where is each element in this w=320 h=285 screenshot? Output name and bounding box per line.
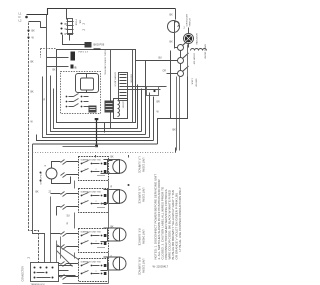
wire cluster to top bus: [66, 9, 68, 20]
wire fuse to connector: [63, 35, 85, 45]
plug pair row 4: [61, 262, 67, 280]
relay lock box inner: [147, 87, 159, 96]
svg-text:BK: BK: [173, 129, 177, 132]
svg-text:SURFACE UNIT SW: SURFACE UNIT SW: [81, 231, 102, 234]
svg-text:1: 1: [85, 169, 86, 171]
svg-text:SURFACE UNIT SW: SURFACE UNIT SW: [81, 159, 102, 162]
svg-text:DOOR SW: DOOR SW: [193, 54, 195, 66]
svg-text:CONNECTOR: CONNECTOR: [22, 266, 25, 282]
wire lamp feed: [188, 28, 190, 48]
svg-text:R.R. SURFACE: R.R. SURFACE: [138, 258, 141, 276]
node splice on left bus: [27, 36, 29, 38]
component inner tick: [86, 74, 88, 93]
switch door switch chain node 1: [178, 40, 189, 51]
svg-text:BK: BK: [111, 157, 115, 159]
wire light to node1: [175, 47, 178, 49]
svg-text:L.R. SURFACE: L.R. SURFACE: [138, 187, 141, 204]
svg-text:15A: 15A: [79, 20, 82, 24]
svg-text:BU: BU: [159, 58, 163, 60]
wire short horizontal y146: [63, 146, 97, 148]
svg-text:UNIT 1200W: UNIT 1200W: [142, 158, 145, 173]
svg-text:ELEC. OVEN CONTROL: ELEC. OVEN CONTROL: [104, 51, 106, 76]
wire chain right rail: [187, 45, 189, 77]
switch infinite switch box 1: [79, 157, 109, 181]
wire dark drop from control box: [96, 119, 98, 147]
terminal block box: [31, 263, 59, 282]
svg-text:1: 1: [85, 271, 86, 273]
relay contact row 1: [66, 94, 89, 98]
lamp indicator with X: [184, 34, 194, 44]
svg-text:SU: SU: [67, 216, 71, 218]
svg-text:BROIL 3400W: BROIL 3400W: [204, 45, 206, 60]
svg-text:BK: BK: [36, 192, 40, 194]
svg-text:N: N: [19, 15, 21, 19]
svg-text:FUSE: FUSE: [75, 20, 77, 26]
fuse label: [75, 20, 86, 32]
lamp oven light: [168, 21, 180, 33]
relay contact row 2: [66, 99, 89, 103]
notes text block rotated columns: [154, 174, 183, 260]
plug pair row 1: [61, 160, 67, 178]
connector P1 pins: [61, 23, 69, 37]
heater broil element coil: [191, 49, 207, 51]
dashed enclosure lower: [61, 72, 101, 114]
relay contact row 3: [66, 104, 89, 108]
svg-text:BKD P09: BKD P09: [94, 43, 105, 47]
power terminal junction: [25, 16, 28, 19]
wire box to door chain: [136, 60, 146, 62]
label element 4: [138, 258, 145, 276]
svg-text:DOOR LATCH: DOOR LATCH: [114, 73, 117, 88]
wire to door switch: [146, 60, 178, 62]
label contacts row 1: [85, 169, 97, 171]
wire terminal out 1: [59, 265, 73, 267]
svg-text:B: B: [75, 66, 77, 70]
node drop bottom: [95, 145, 98, 147]
wire below oven light: [174, 33, 176, 49]
heater surface element 2: [108, 190, 127, 204]
label element 3: [138, 229, 145, 246]
wire lock pair: [177, 77, 180, 151]
wire to lock switch: [167, 73, 178, 75]
dashed power section corner: [41, 49, 57, 58]
svg-text:SURFACE UNIT SW: SURFACE UNIT SW: [81, 261, 102, 264]
motor door latch coil: [119, 73, 128, 101]
svg-text:UNIT 1200W: UNIT 1200W: [142, 259, 145, 274]
svg-text:BK: BK: [170, 14, 174, 17]
wire mid lower bus: [50, 197, 52, 263]
connector TB blob: [71, 52, 76, 61]
terminal block pins: [34, 267, 54, 279]
lamp pilot row 1: [46, 168, 57, 179]
wire bracket upper right 2: [119, 89, 161, 91]
wire row3 left links: [51, 234, 79, 247]
wire nested horizontals below box: [43, 15, 150, 138]
node tick on box top: [94, 48, 101, 50]
wire box entry 1: [47, 57, 69, 59]
svg-text:SWITCH: SWITCH: [190, 18, 192, 27]
label element 2: [138, 187, 145, 204]
svg-text:SWITCH: SWITCH: [195, 79, 197, 88]
wire label speckles: [31, 58, 167, 259]
label latch vertical: [114, 73, 132, 88]
switch contacts 3: [81, 233, 105, 248]
svg-text:MOTOR: MOTOR: [130, 75, 132, 84]
wire L1 top bus: [27, 9, 176, 15]
plug pair row 2: [61, 192, 67, 210]
terminal block inner dashes: [37, 273, 51, 278]
wire row1 left links: [52, 162, 79, 184]
svg-text:2: 2: [96, 169, 97, 171]
motor clock coil: [114, 99, 128, 119]
svg-text:2: 2: [96, 201, 97, 203]
svg-text:LOCK: LOCK: [191, 79, 193, 85]
wire N bus: [29, 22, 47, 28]
wire corner at right: [158, 77, 188, 145]
wire row4 bottom: [63, 263, 109, 284]
svg-text:L.F. SURFACE: L.F. SURFACE: [138, 157, 141, 174]
wire chain link: [180, 51, 182, 71]
svg-text:1: 1: [85, 201, 86, 203]
wire row4 left links: [59, 264, 79, 277]
connector BKD plug: [85, 42, 92, 48]
relay block A: [89, 106, 97, 113]
node tick below dotted b: [128, 155, 130, 158]
wire vertical pair row34: [57, 237, 61, 263]
wire terminal out 2: [59, 270, 69, 272]
svg-text:BK: BK: [53, 70, 57, 72]
label contacts row 4: [85, 271, 97, 273]
node lock relay dot: [153, 90, 155, 92]
switch door switch chain node 2: [178, 53, 189, 64]
svg-text:BK: BK: [31, 92, 35, 94]
wire element2 stub: [101, 190, 108, 204]
node speck b: [40, 180, 42, 182]
svg-text:INDICATOR: INDICATOR: [196, 33, 199, 45]
control box electronic oven control: [57, 50, 136, 123]
switch contacts 2: [81, 193, 105, 208]
heater surface element 4: [108, 257, 127, 270]
switch oven light switch label: [187, 13, 192, 26]
svg-text:R.F. SURFACE: R.F. SURFACE: [138, 229, 141, 246]
node speck a: [40, 172, 42, 174]
wire element3 stub: [101, 228, 108, 242]
wire row2 left links: [51, 194, 79, 216]
svg-text:BK: BK: [31, 62, 35, 64]
svg-text:P09 1 2 3: P09 1 2 3: [79, 52, 89, 54]
wire element4 stub: [101, 257, 108, 271]
switch infinite switch box 2: [79, 189, 109, 213]
node tick below dotted a: [95, 155, 97, 158]
wire diagonal interconnect b: [57, 251, 73, 267]
switch infinite switch box 3: [79, 229, 109, 253]
wire right drop to oven light: [175, 9, 177, 20]
relay block B: [105, 101, 114, 113]
svg-text:BK: BK: [32, 30, 36, 33]
wire element1 stub: [101, 160, 108, 174]
svg-text:2: 2: [96, 271, 97, 273]
label contacts row 3: [85, 241, 97, 243]
wire row3 chain: [75, 253, 109, 259]
fuse F1: [67, 19, 74, 35]
wire long dark horizontal: [33, 143, 158, 145]
label element 1: [138, 157, 145, 174]
switch contacts 4: [81, 263, 103, 275]
component nested rounded rect outer: [76, 74, 99, 93]
switch infinite switch box 4: [79, 259, 109, 282]
wire dotted separator: [33, 152, 176, 154]
svg-text:UNIT 1200W: UNIT 1200W: [142, 188, 145, 203]
component nested rounded rect inner: [81, 78, 94, 90]
node drop top: [95, 118, 99, 120]
node L1 power terminal labels: [19, 12, 22, 23]
wire box entry 2: [47, 66, 69, 68]
switch contacts 1: [81, 161, 105, 176]
wire terminal out 3: [59, 275, 76, 277]
wire left vertical bus: [29, 23, 39, 263]
svg-text:UNIT 2400W: UNIT 2400W: [142, 230, 145, 245]
svg-text:BR: BR: [157, 102, 161, 104]
control box inner walls: [111, 50, 133, 123]
switch door switch chain node 3: [178, 66, 189, 77]
wire row1 to element: [109, 161, 113, 173]
connector TB mark 2: [71, 65, 74, 69]
svg-text:1: 1: [85, 241, 86, 243]
wire row2 chain: [75, 181, 109, 229]
wire tick at separator end: [175, 148, 177, 153]
svg-text:R: R: [65, 33, 67, 36]
heater surface element 3: [108, 228, 127, 241]
wire diagonal interconnect a: [57, 245, 79, 260]
svg-text:OR: OR: [163, 71, 167, 73]
svg-text:SURFACE UNIT SW: SURFACE UNIT SW: [81, 191, 102, 194]
wire left lower bus: [33, 144, 45, 263]
label door switch: [191, 54, 197, 88]
svg-text:BK: BK: [170, 41, 174, 44]
wire bracket upper right 1: [123, 86, 167, 88]
label contacts row 2: [85, 201, 97, 203]
label control vertical: [104, 51, 106, 76]
svg-text:BK: BK: [111, 227, 115, 229]
node dot under element1: [128, 184, 130, 186]
heater surface element 1: [108, 160, 127, 174]
svg-text:CLOCK: CLOCK: [122, 101, 124, 109]
svg-text:2: 2: [96, 241, 97, 243]
wire right verticals: [170, 51, 172, 119]
wire bundle right verticals: [37, 61, 154, 141]
svg-text:OVEN LIGHT: OVEN LIGHT: [187, 13, 189, 26]
svg-text:W- 22003417: W- 22003417: [153, 265, 169, 269]
wire short drops from box bottom: [105, 123, 111, 133]
svg-text:LT BLUE. USE COPPER CONDUCTORS: LT BLUE. USE COPPER CONDUCTORS ONLY.: [178, 187, 182, 252]
plug pair row 3: [61, 232, 67, 250]
node splice on left bus: [27, 29, 29, 31]
